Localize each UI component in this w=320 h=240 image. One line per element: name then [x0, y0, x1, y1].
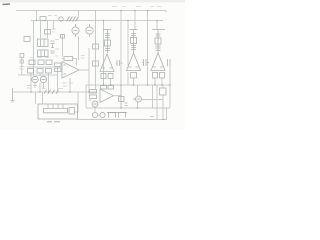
resistor R30	[90, 90, 97, 94]
resistor R34 chain	[119, 85, 125, 108]
wire U5 output	[114, 95, 122, 97]
wire	[85, 85, 87, 108]
label under box	[47, 121, 60, 123]
resistor RN2	[38, 50, 49, 57]
ground rail left	[13, 91, 98, 93]
wire bus horiz	[27, 66, 54, 68]
wire cluster drops	[41, 21, 54, 39]
rail V+ top	[16, 10, 166, 12]
meter scale box	[69, 108, 75, 115]
wire	[162, 85, 164, 108]
trimmer P3	[155, 30, 161, 53]
resistor R2	[24, 37, 30, 42]
resistor R9 input	[55, 68, 62, 72]
wire right edge drop	[169, 62, 171, 108]
chain above U2: dash	[103, 29, 111, 31]
resistor R6	[37, 69, 43, 74]
resistor R20	[93, 44, 99, 49]
node text under cluster	[27, 86, 37, 89]
transistor Q3	[32, 76, 38, 82]
wire feedback drop	[62, 35, 64, 57]
resistor R1 on rail	[40, 17, 46, 21]
resistor R3	[45, 30, 51, 35]
transistor Q1	[72, 24, 79, 37]
chain above U4: dash	[152, 29, 165, 31]
capacitor marks right of U3	[142, 59, 149, 66]
wire mid horizontal	[142, 99, 164, 101]
trimmer P2	[131, 30, 137, 53]
node text marks	[30, 57, 49, 59]
transistor Q4	[40, 76, 46, 82]
resistor R4b	[38, 60, 44, 65]
resistor R4a	[29, 60, 35, 65]
power amp U3	[127, 53, 141, 71]
node text	[81, 56, 85, 59]
wire small rail	[107, 112, 127, 114]
node text under U1	[62, 83, 73, 86]
wire cluster right drop	[57, 67, 59, 92]
meter element	[44, 104, 68, 113]
wire	[153, 85, 158, 108]
paper background	[0, 0, 185, 130]
capacitor marks right of U4	[168, 59, 171, 66]
resistor network RN1	[38, 39, 49, 47]
wire	[90, 99, 95, 113]
capacitor C2 marks	[51, 41, 55, 48]
op-amp U5	[100, 89, 114, 103]
bottom rail 2	[78, 119, 168, 121]
trimmer P1	[105, 30, 111, 53]
diode marks	[125, 103, 128, 106]
capacitor C5	[61, 35, 65, 39]
transistor Q12	[98, 112, 106, 117]
title dash top-left	[3, 3, 11, 6]
node marks	[150, 116, 154, 118]
capacitor C10 bracket	[109, 113, 116, 118]
wire U3 to rail	[128, 72, 134, 85]
resistor below U4 left	[153, 73, 158, 79]
resistor below U4 right	[160, 73, 165, 79]
rail V2	[31, 20, 163, 22]
resistor R32 feedback	[101, 86, 107, 90]
resistor R31	[90, 95, 97, 99]
power amp U2	[100, 54, 114, 72]
node text above	[42, 88, 63, 90]
input chain: box	[20, 54, 24, 58]
wire output U1	[79, 69, 89, 71]
resistor R7	[46, 69, 52, 74]
wire long drop to U5	[95, 11, 97, 91]
node text	[52, 29, 56, 32]
node small text	[48, 15, 57, 17]
wire right of box	[75, 92, 79, 112]
transistor Q11	[92, 112, 97, 117]
mid rail right	[86, 84, 170, 86]
resistor R8 input	[55, 63, 62, 67]
input chain marks	[20, 67, 25, 70]
transistor Q2	[86, 24, 93, 37]
resistor R21	[93, 61, 99, 66]
wire feedback	[62, 59, 77, 66]
wire U2 to rail	[104, 79, 111, 86]
wire left drop	[33, 21, 35, 76]
wire U4 to rail	[155, 78, 162, 85]
wire drops from rails	[104, 11, 158, 86]
relay K1 box	[160, 88, 167, 95]
wire U1 ground	[69, 78, 71, 92]
capacitor marks right of U2	[116, 60, 123, 66]
resistor below U3	[131, 73, 137, 79]
transistor Q10	[92, 101, 98, 107]
connector slashes	[67, 17, 79, 22]
wire Q1 collector down	[78, 37, 80, 61]
resistor R4c	[46, 60, 52, 65]
resistor below U2 right	[108, 74, 113, 79]
ground stub left	[11, 88, 15, 102]
wire rail jumper	[36, 11, 38, 21]
connector slashes on rail	[44, 90, 59, 94]
wire links rails	[157, 108, 167, 120]
resistor R33 feedback	[108, 86, 114, 90]
capacitor C11 bracket	[119, 113, 126, 118]
wire box feeds	[36, 92, 43, 104]
wire drops to ground rail	[31, 73, 49, 92]
input chain: jack circle	[20, 60, 24, 64]
lamp circle	[59, 17, 63, 21]
node ticks small text above rail	[112, 6, 162, 8]
wire	[78, 11, 80, 17]
resistor R5	[28, 69, 34, 74]
wire right vertical	[88, 48, 90, 92]
resistor below U2 left	[101, 74, 106, 79]
op-amp U1	[62, 62, 79, 79]
wire top rails end ticks	[165, 11, 167, 13]
meter M1 enclosure	[38, 104, 78, 119]
wire input horiz	[18, 74, 57, 76]
power amp U4	[151, 53, 165, 71]
bottom rail right	[86, 107, 170, 109]
wire	[137, 85, 139, 108]
chain above U3: dash	[130, 29, 138, 31]
node junction dots	[30, 10, 171, 120]
transistor Q13	[133, 96, 142, 102]
resistor R10 feedback	[64, 57, 73, 61]
node text left	[55, 40, 59, 57]
